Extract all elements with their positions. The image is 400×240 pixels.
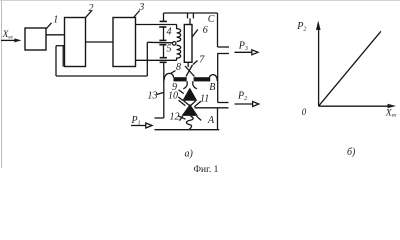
svg-text:2: 2 [89,3,94,14]
svg-text:Фиг. 1: Фиг. 1 [194,165,219,174]
svg-text:11: 11 [200,93,209,104]
svg-text:C: C [208,14,215,25]
svg-text:5: 5 [167,44,172,55]
svg-text:6: 6 [203,25,208,36]
svg-text:B: B [209,82,215,93]
svg-text:3: 3 [138,2,144,13]
svg-text:а): а) [185,149,194,160]
svg-text:б): б) [347,147,356,158]
svg-text:4: 4 [167,27,172,38]
svg-text:12: 12 [170,112,180,123]
svg-text:8: 8 [176,62,181,73]
svg-text:A: A [207,115,215,126]
svg-text:0: 0 [302,107,307,117]
svg-text:10: 10 [168,90,178,101]
svg-text:1: 1 [53,15,58,26]
svg-text:13: 13 [148,91,158,102]
